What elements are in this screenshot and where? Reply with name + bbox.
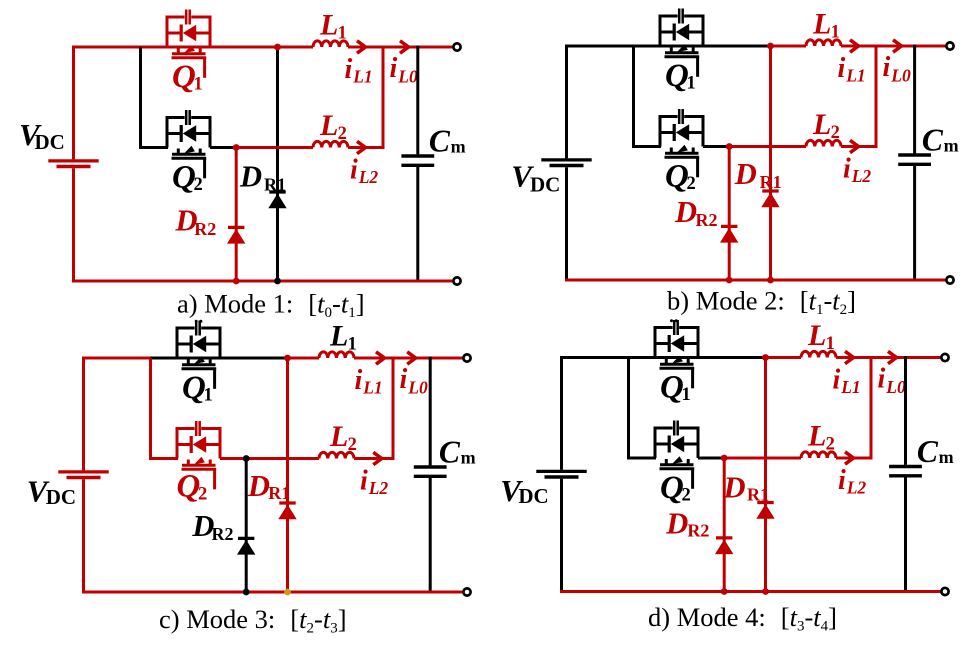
svg-text:L: L <box>329 420 348 453</box>
wire output riser L2 to output node (d) <box>870 358 873 459</box>
wire Q2 source to node SW2 (d) <box>698 457 724 460</box>
svg-text:L2: L2 <box>846 478 867 498</box>
label DR1 (b) <box>734 157 782 192</box>
wire branch node to Q1 drain (c) <box>151 357 289 360</box>
diode DR1 (d) <box>756 358 774 592</box>
svg-text:1: 1 <box>826 334 835 354</box>
label iL0 (c) <box>400 364 428 397</box>
junction DR1 anode / return rail dot (c) <box>284 589 291 596</box>
svg-text:1: 1 <box>194 75 203 95</box>
label iL1 (c) <box>355 365 383 398</box>
wire VDC+ rail to drain branch node (a) <box>72 46 142 49</box>
svg-text:Q: Q <box>172 59 196 95</box>
inductor L1 (d) <box>801 351 836 357</box>
wire SW2 to inductor L2 (d) <box>724 457 801 460</box>
svg-text:1: 1 <box>348 334 357 354</box>
terminal + (c) <box>463 354 470 361</box>
wire Q2 drain from branch vertical (a) <box>139 146 168 149</box>
wire Q2 source to node SW2 (a) <box>210 146 236 149</box>
inductor L1 (c) <box>319 352 354 358</box>
inductor L2 (d) <box>801 452 836 458</box>
svg-text:Q: Q <box>182 370 206 406</box>
junction DR1 anode / return rail dot (b) <box>767 277 774 284</box>
svg-text:L: L <box>319 109 338 142</box>
current arrow iL1 (a) <box>357 41 366 53</box>
junction SW1: Q1 source / DR1 cathode dot (d) <box>762 354 769 361</box>
svg-text:c) Mode 3:[t2-t3]: c) Mode 3:[t2-t3] <box>159 604 347 637</box>
label L2 (a) <box>319 109 347 144</box>
wire L1 to output node (c) <box>354 357 393 360</box>
transistor Q2 (d) <box>654 421 700 489</box>
svg-text:D: D <box>665 507 688 541</box>
wire Q2 source to node SW2 (c) <box>220 457 246 460</box>
svg-text:L: L <box>812 8 831 41</box>
svg-text:Q: Q <box>172 160 196 196</box>
label Q1 (c) <box>182 370 213 406</box>
stray diaeresis mark below caption a <box>195 320 203 323</box>
label Q2 (d) <box>660 470 691 506</box>
inductor L1 (a) <box>313 41 348 47</box>
terminal - (c) <box>463 588 470 595</box>
wire L2 to output riser (d) <box>836 457 873 460</box>
wire branch node to Q1 drain (b) <box>634 45 772 48</box>
svg-text:i: i <box>843 154 851 185</box>
svg-text:m: m <box>461 448 476 468</box>
stray diaeresis mark below caption b <box>670 319 678 322</box>
svg-text:DC: DC <box>46 485 76 509</box>
label L1 (c) <box>329 320 357 355</box>
wire Q2 drain from branch vertical (b) <box>632 145 661 148</box>
svg-text:C: C <box>917 434 939 469</box>
current arrow iL2 (a) <box>357 141 366 153</box>
terminal - (d) <box>941 588 948 595</box>
svg-text:R2: R2 <box>194 219 216 239</box>
wire output riser L2 to output node (a) <box>382 47 385 148</box>
wire SW1 to inductor L1 (b) <box>771 45 807 48</box>
battery VDC (d) <box>536 356 586 592</box>
junction DR2 anode / return rail dot (c) <box>243 589 250 596</box>
svg-text:L0: L0 <box>885 377 906 397</box>
svg-text:i: i <box>350 155 358 186</box>
svg-text:1: 1 <box>682 385 691 405</box>
svg-text:L: L <box>319 9 338 42</box>
svg-text:i: i <box>360 466 368 497</box>
inductor L2 (c) <box>319 452 354 458</box>
svg-text:DC: DC <box>35 130 65 154</box>
label Q2 (a) <box>172 160 203 196</box>
transistor Q2 (c) <box>176 421 222 489</box>
svg-text:2: 2 <box>194 175 203 195</box>
label L1 (b) <box>812 8 840 43</box>
svg-text:Q: Q <box>665 159 689 195</box>
terminal + (b) <box>946 42 953 49</box>
wire Q2 source to node SW2 (b) <box>703 145 729 148</box>
svg-text:m: m <box>944 136 959 156</box>
transistor Q1 (c) <box>176 321 222 389</box>
svg-text:L2: L2 <box>368 478 389 498</box>
diode DR1 (b) <box>761 46 779 280</box>
svg-text:2: 2 <box>831 123 840 143</box>
wire return rail VDC- to terminal- (b) <box>565 279 945 282</box>
wire SW1 to inductor L1 (d) <box>766 356 802 359</box>
label L1 (a) <box>319 9 347 44</box>
wire L2 to output riser (a) <box>348 146 385 149</box>
wire SW1 to inductor L1 (c) <box>288 357 320 360</box>
transistor Q2 (a) <box>166 110 212 178</box>
current arrow iL2 (b) <box>850 140 859 152</box>
svg-text:m: m <box>939 447 954 467</box>
label DR2 (d) <box>665 507 709 541</box>
diode DR1 (a) <box>268 47 286 281</box>
svg-text:L1: L1 <box>352 67 372 87</box>
svg-text:Q: Q <box>177 469 201 505</box>
svg-text:L1: L1 <box>840 377 860 397</box>
current arrow iL1 (d) <box>845 351 854 363</box>
label Q1 (d) <box>660 370 691 406</box>
current arrow iL0 (b) <box>893 40 902 52</box>
label VDC (a) <box>19 117 65 154</box>
svg-text:i: i <box>838 53 846 84</box>
wire drain branch vertical to Q2 (a) <box>139 47 142 149</box>
svg-text:Q: Q <box>660 470 684 506</box>
junction DR2 anode / return rail dot (d) <box>721 588 728 595</box>
diode DR2 (b) <box>720 147 738 281</box>
label iL1 (a) <box>345 54 373 87</box>
label Cm (d) <box>917 434 954 469</box>
svg-text:2: 2 <box>198 485 207 505</box>
current arrow iL0 (d) <box>888 351 897 363</box>
wire SW2 to inductor L2 (a) <box>236 146 313 149</box>
terminal + (a) <box>453 43 460 50</box>
wire drain branch vertical to Q2 (b) <box>632 46 635 148</box>
wire drain branch vertical to Q2 (d) <box>627 358 630 460</box>
junction DR2 anode / return rail dot (a) <box>233 278 240 285</box>
svg-text:C: C <box>429 124 451 159</box>
wire Q2 drain from branch vertical (d) <box>627 457 656 460</box>
capacitor Cm (b) <box>898 45 931 282</box>
label Q1 (a) <box>172 59 203 95</box>
label Cm (a) <box>429 124 466 159</box>
battery VDC (c) <box>58 357 108 593</box>
battery VDC (a) <box>48 46 98 282</box>
capacitor Cm (c) <box>414 357 447 594</box>
diode DR1 (c) <box>278 358 296 592</box>
svg-text:R2: R2 <box>687 520 709 540</box>
svg-text:2: 2 <box>348 435 357 455</box>
capacitor Cm (d) <box>889 356 922 593</box>
label DR2 (c) <box>191 509 233 544</box>
label iL0 (b) <box>883 52 911 85</box>
svg-text:i: i <box>878 364 886 395</box>
svg-text:2: 2 <box>338 124 347 144</box>
svg-text:C: C <box>439 435 461 470</box>
svg-text:L0: L0 <box>890 65 911 85</box>
current arrow iL0 (c) <box>407 352 416 364</box>
wire output node to terminal+ (a) <box>383 46 452 49</box>
svg-text:DC: DC <box>530 173 560 197</box>
wire VDC+ rail to drain branch node (d) <box>560 356 630 359</box>
wire output node to terminal+ (d) <box>871 356 940 359</box>
svg-text:L2: L2 <box>358 167 379 187</box>
svg-text:R2: R2 <box>696 210 718 230</box>
svg-text:L1: L1 <box>362 378 382 398</box>
svg-text:d) Mode 4:[t3-t4]: d) Mode 4:[t3-t4] <box>648 602 837 635</box>
label L2 (d) <box>807 420 835 455</box>
label L2 (c) <box>329 420 357 455</box>
label iL2 (b) <box>843 154 871 187</box>
label DR1 (c) <box>247 469 290 503</box>
svg-text:L2: L2 <box>851 166 872 186</box>
label L2 (b) <box>812 108 840 143</box>
svg-text:i: i <box>883 52 891 83</box>
wire branch node to Q1 drain (a) <box>141 46 279 49</box>
label DR2 (a) <box>175 204 217 240</box>
label Q1 (b) <box>665 58 696 94</box>
wire SW2 to inductor L2 (b) <box>729 145 806 148</box>
transistor Q1 (b) <box>659 9 705 77</box>
svg-text:i: i <box>838 465 846 496</box>
svg-text:L0: L0 <box>407 377 428 397</box>
junction SW2 dot (c) <box>243 455 250 462</box>
svg-text:L: L <box>329 320 348 353</box>
label L1 (d) <box>807 319 835 354</box>
svg-text:C: C <box>922 123 944 158</box>
wire SW2 to inductor L2 (c) <box>246 457 319 460</box>
diode DR2 (a) <box>227 148 245 282</box>
svg-text:R2: R2 <box>212 524 234 544</box>
label iL1 (b) <box>838 53 866 86</box>
junction DR1 anode / return rail dot (d) <box>762 588 769 595</box>
label Q2 (b) <box>665 159 696 195</box>
svg-text:D: D <box>239 160 262 194</box>
terminal - (a) <box>453 277 460 284</box>
svg-text:a) Mode 1:[t0-t1]: a) Mode 1:[t0-t1] <box>177 289 365 322</box>
label iL0 (a) <box>390 53 418 86</box>
svg-text:1: 1 <box>687 74 696 94</box>
inductor L1 (b) <box>806 40 841 46</box>
svg-text:D: D <box>723 470 746 504</box>
diode DR2 (d) <box>715 458 733 592</box>
junction SW2 dot (a) <box>233 144 240 151</box>
wire output riser L2 to output node (b) <box>875 46 878 147</box>
current arrow iL2 (d) <box>845 452 854 464</box>
label VDC (c) <box>27 474 76 510</box>
wire VDC+ rail to drain branch node (b) <box>565 45 635 48</box>
label iL2 (a) <box>350 155 378 188</box>
label DR1 (a) <box>239 160 286 195</box>
wire L2 to output riser (b) <box>841 145 878 148</box>
svg-text:L0: L0 <box>397 66 418 86</box>
junction SW1: Q1 source / DR1 cathode dot (b) <box>767 43 774 50</box>
current arrow iL1 (c) <box>376 352 385 364</box>
svg-text:2: 2 <box>687 174 696 194</box>
label iL0 (d) <box>878 364 906 397</box>
svg-text:1: 1 <box>831 22 840 42</box>
wire L1 to output node (b) <box>841 45 876 48</box>
svg-text:i: i <box>355 365 363 396</box>
wire VDC+ rail to drain branch node (c) <box>82 357 152 360</box>
wire drain branch vertical to Q2 (c) <box>149 358 152 460</box>
svg-text:D: D <box>247 469 270 503</box>
wire L1 to output node (d) <box>836 356 871 359</box>
label VDC (d) <box>500 473 548 508</box>
wire output node to terminal+ (b) <box>876 45 945 48</box>
wire Q2 drain from branch vertical (c) <box>149 457 178 460</box>
terminal + (d) <box>941 354 948 361</box>
svg-text:i: i <box>390 53 398 84</box>
transistor Q1 (a) <box>166 10 212 78</box>
svg-text:2: 2 <box>682 486 691 506</box>
current arrow iL2 (c) <box>373 452 382 464</box>
svg-text:Q: Q <box>660 370 684 406</box>
svg-text:L: L <box>812 108 831 141</box>
svg-text:i: i <box>400 364 408 395</box>
wire branch node to Q1 drain (d) <box>629 356 767 359</box>
junction SW1: Q1 source / DR1 cathode dot (c) <box>284 355 291 362</box>
transistor Q2 (b) <box>659 109 705 177</box>
svg-text:2: 2 <box>826 434 835 454</box>
label iL2 (d) <box>838 465 866 498</box>
label iL2 (c) <box>360 466 388 499</box>
svg-text:i: i <box>833 365 841 396</box>
label Cm (b) <box>922 123 959 158</box>
wire L2 to output riser (c) <box>354 457 395 460</box>
label iL1 (d) <box>833 365 861 398</box>
diode DR2 (c) <box>237 459 255 593</box>
transistor Q1 (d) <box>654 320 700 388</box>
wire SW1 to inductor L1 (a) <box>278 46 314 49</box>
svg-text:1: 1 <box>338 23 347 43</box>
svg-text:b) Mode 2:[t1-t2]: b) Mode 2:[t1-t2] <box>667 286 856 319</box>
current arrow iL1 (b) <box>850 40 859 52</box>
label VDC (b) <box>511 159 560 197</box>
wire return rail VDC- to terminal- (a) <box>72 280 452 283</box>
label Cm (c) <box>439 435 476 470</box>
wire output riser L2 to output node (c) <box>392 358 395 459</box>
inductor L2 (b) <box>806 140 841 146</box>
inductor L2 (a) <box>313 141 348 147</box>
svg-text:DC: DC <box>518 484 548 508</box>
svg-text:D: D <box>734 157 757 191</box>
svg-text:m: m <box>451 137 466 157</box>
junction DR2 anode / return rail dot (b) <box>726 277 733 284</box>
svg-text:L: L <box>807 319 826 352</box>
junction SW2 dot (d) <box>721 455 728 462</box>
svg-text:Q: Q <box>665 58 689 94</box>
capacitor Cm (a) <box>401 46 434 283</box>
label DR1 (d) <box>723 470 770 504</box>
wire L1 to output node (a) <box>348 46 383 49</box>
current arrow iL0 (a) <box>400 41 409 53</box>
label Q2 (c) <box>177 469 208 505</box>
svg-text:L: L <box>807 420 826 453</box>
wire return rail VDC- to terminal- (d) <box>560 590 940 593</box>
svg-text:1: 1 <box>204 386 213 406</box>
battery VDC (b) <box>541 45 591 281</box>
junction SW1: Q1 source / DR1 cathode dot (a) <box>274 44 281 51</box>
junction SW2 dot (b) <box>726 143 733 150</box>
svg-text:i: i <box>345 54 353 85</box>
wire return rail VDC- to terminal- (c) <box>82 591 462 594</box>
wire output node to terminal+ (c) <box>393 357 462 360</box>
terminal - (b) <box>946 276 953 283</box>
label DR2 (b) <box>674 195 718 230</box>
svg-text:D: D <box>674 195 697 229</box>
junction DR1 anode / return rail dot (a) <box>274 278 281 285</box>
svg-text:L1: L1 <box>845 66 865 86</box>
